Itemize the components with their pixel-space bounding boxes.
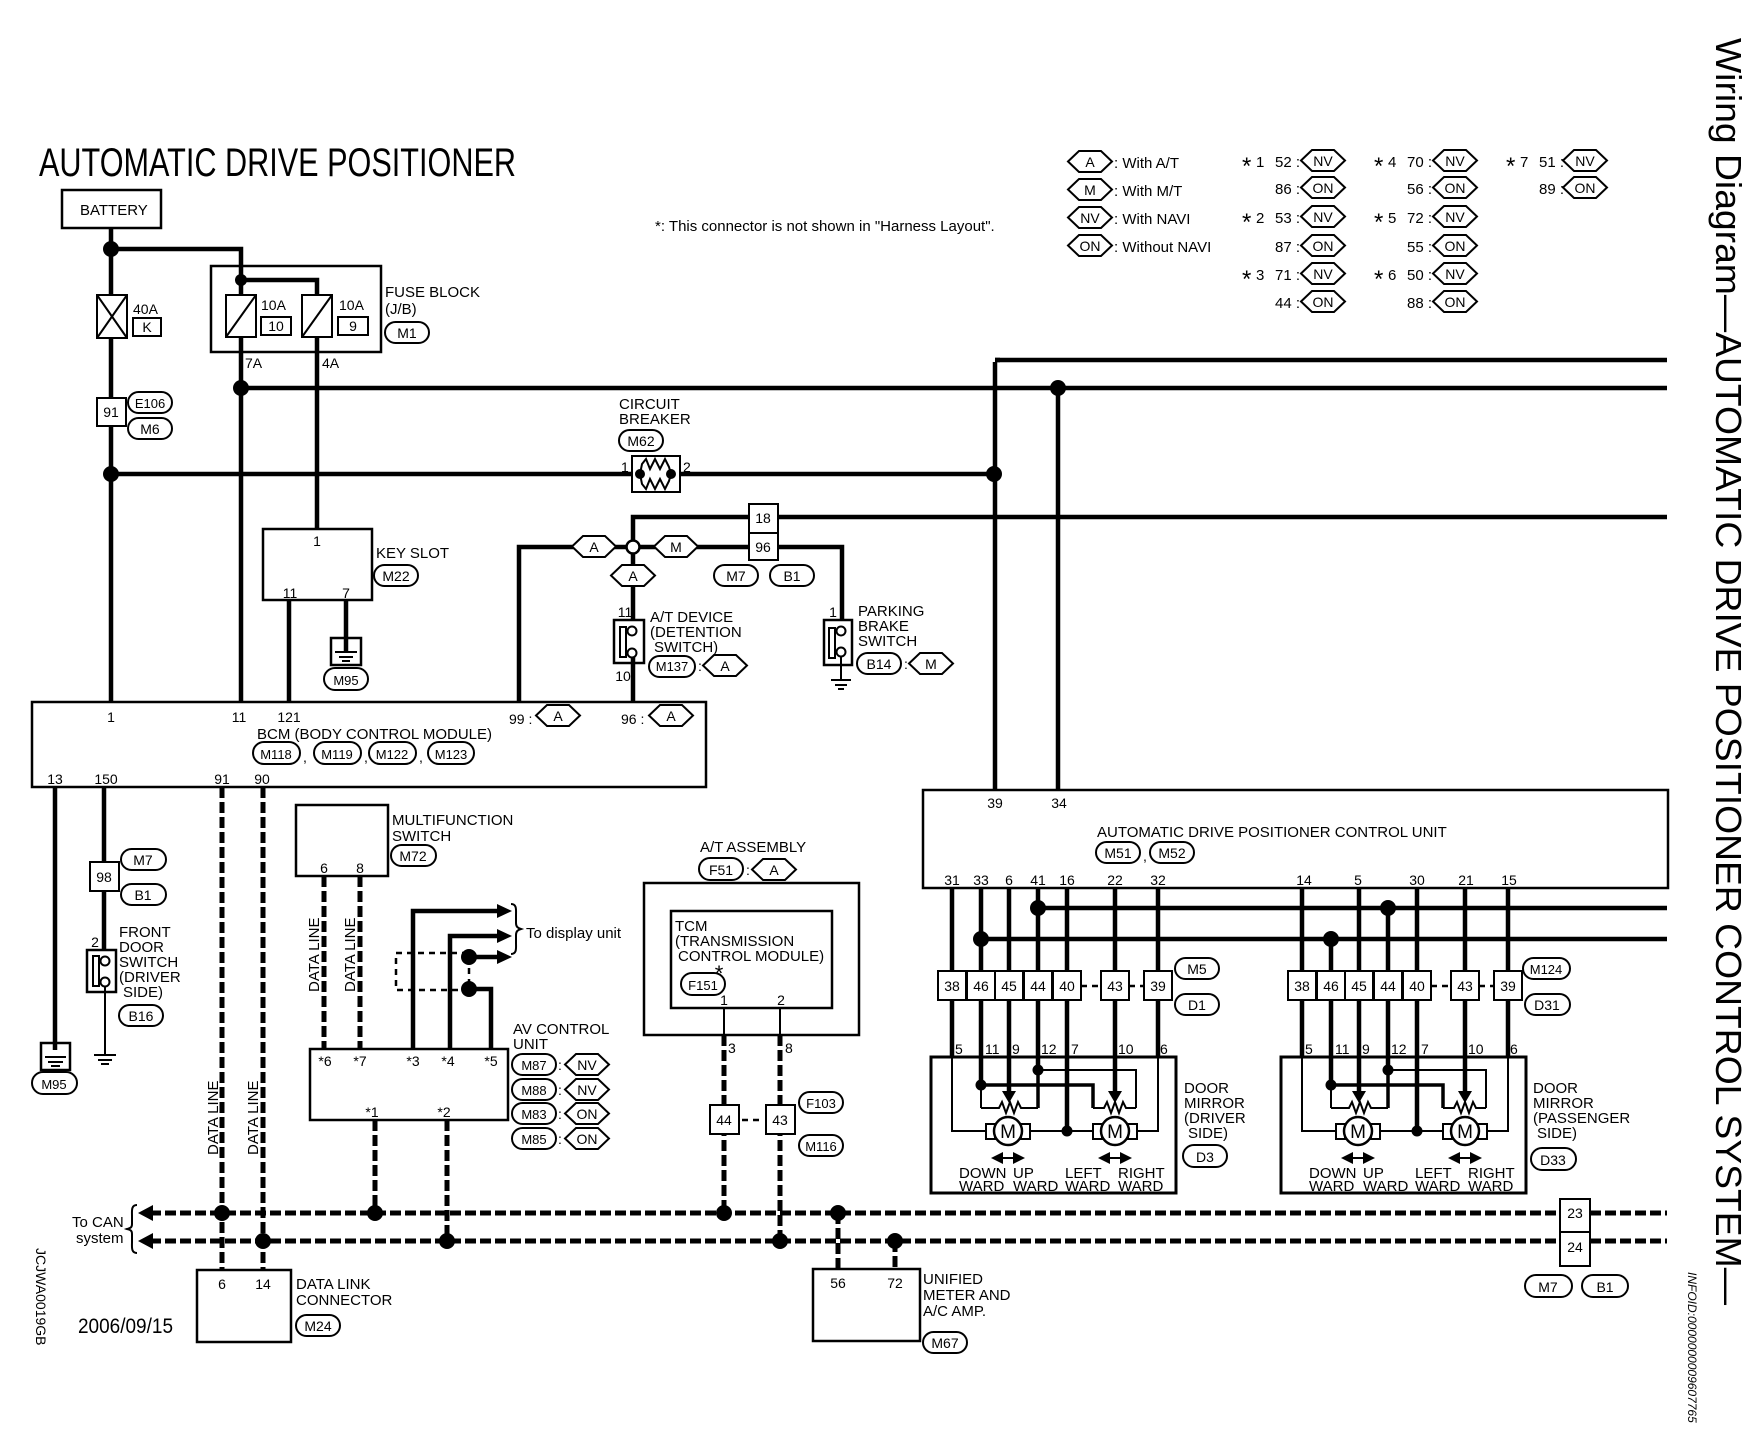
wire battery to fuse block	[111, 249, 241, 295]
svg-text:7: 7	[1071, 1041, 1079, 1057]
svg-text:M83: M83	[521, 1107, 546, 1122]
junction TCM3-CANH	[716, 1205, 732, 1221]
svg-text:1: 1	[829, 604, 837, 620]
bus wire from 7A fuse (top feed)	[241, 386, 1667, 391]
legend hexagon NV	[1068, 207, 1190, 228]
wire ADP 6	[1007, 888, 1012, 971]
svg-text:M118: M118	[260, 747, 292, 762]
wire ADP 30	[1415, 888, 1420, 971]
svg-text:ON: ON	[1313, 238, 1334, 254]
svg-text:KEY SLOT: KEY SLOT	[376, 545, 449, 562]
mirror pin labels 5/11/9/12/7/10/6	[955, 1041, 1168, 1057]
svg-text:B16: B16	[129, 1008, 154, 1024]
svg-text:M: M	[1107, 1122, 1123, 1143]
CAN bus L line	[150, 1239, 1667, 1244]
svg-text:NV: NV	[1313, 266, 1333, 282]
wire unified meter 72	[893, 1241, 898, 1269]
svg-text:NV: NV	[577, 1082, 597, 1098]
svg-text:ON: ON	[577, 1131, 598, 1147]
svg-text:*: *	[1242, 266, 1251, 293]
svg-text:51 :: 51 :	[1539, 154, 1564, 171]
svg-text:D31: D31	[1534, 997, 1560, 1013]
svg-text:M: M	[1000, 1122, 1016, 1143]
motor M2 left/right	[1093, 1117, 1137, 1145]
connector row boxes 38/46/45/44/40/43/39	[938, 971, 1172, 1000]
svg-text:M: M	[925, 656, 937, 672]
wire motor link	[1030, 1130, 1093, 1132]
arrow to display 3	[497, 950, 512, 964]
svg-text:89 :: 89 :	[1539, 181, 1564, 198]
svg-text:90: 90	[254, 771, 270, 787]
wire mirror pin 9 wiper	[1007, 1057, 1012, 1091]
wire MFS 8 data line	[358, 876, 363, 1049]
wire bus2 tap to 46 (passenger)	[1329, 939, 1334, 971]
svg-text:6: 6	[1005, 872, 1013, 888]
svg-text:44 :: 44 :	[1275, 295, 1300, 312]
svg-text:*7: *7	[353, 1053, 366, 1069]
svg-text:44: 44	[716, 1112, 732, 1128]
wire ADP pin39 riser	[993, 362, 998, 790]
svg-text:10: 10	[268, 318, 284, 334]
svg-text:DATA LINE: DATA LINE	[342, 918, 359, 992]
svg-text:3: 3	[1256, 267, 1264, 284]
svg-text:7A: 7A	[245, 355, 263, 371]
junction pot left feed	[976, 1080, 987, 1091]
wire bus1 tap to 44 (passenger)	[1386, 908, 1391, 971]
svg-text:22: 22	[1107, 872, 1123, 888]
svg-text:NV: NV	[1445, 153, 1465, 169]
ground (front door switch)	[94, 986, 116, 1064]
svg-text:9: 9	[1012, 1041, 1020, 1057]
svg-text::: :	[746, 862, 750, 878]
wire ADP 22	[1113, 888, 1118, 971]
svg-text:SWITCH): SWITCH)	[654, 639, 718, 656]
junction display option upper	[461, 949, 477, 965]
svg-text:F103: F103	[806, 1096, 836, 1111]
svg-text:BATTERY: BATTERY	[80, 202, 148, 219]
svg-text:A/T ASSEMBLY: A/T ASSEMBLY	[700, 839, 806, 856]
svg-text:6: 6	[1388, 267, 1396, 284]
svg-text:10A: 10A	[261, 297, 287, 313]
CAN bus L arrow	[138, 1233, 153, 1249]
svg-text:: With A/T: : With A/T	[1114, 155, 1179, 172]
wire option split to parking brake	[639, 547, 842, 620]
svg-text::: :	[698, 658, 702, 674]
potentiometer pot2	[1093, 1102, 1136, 1113]
arrow to display 2	[497, 929, 512, 943]
svg-text:M137: M137	[656, 659, 689, 674]
svg-text:A: A	[628, 568, 638, 584]
svg-text:WARD: WARD	[1118, 1178, 1163, 1195]
label door mirror driver side D3	[1183, 1080, 1246, 1167]
svg-text:AUTOMATIC DRIVE POSITIONER CON: AUTOMATIC DRIVE POSITIONER CONTROL UNIT	[1097, 824, 1447, 841]
junction bus2 passenger tap	[1323, 931, 1339, 947]
svg-text:1: 1	[313, 533, 321, 549]
svg-text:96 :: 96 :	[621, 711, 644, 727]
svg-text:ON: ON	[1313, 180, 1334, 196]
TCM (transmission control module) F151	[671, 911, 832, 1008]
svg-text:34: 34	[1051, 795, 1067, 811]
svg-text:A: A	[666, 708, 676, 724]
svg-text:CONTROL MODULE): CONTROL MODULE)	[678, 948, 824, 965]
svg-text:M7: M7	[1538, 1279, 1558, 1295]
svg-text:86 :: 86 :	[1275, 181, 1300, 198]
fusible link 40A K	[97, 295, 161, 338]
svg-text:B14: B14	[867, 656, 892, 672]
wires connector row to mirror	[952, 1000, 1158, 1057]
svg-text:4: 4	[1388, 154, 1396, 171]
wire A/T device pin10 to BCM 96	[631, 657, 636, 702]
svg-text:*: *	[1374, 209, 1383, 236]
fuse block J/B box M1	[211, 266, 480, 352]
svg-text:96: 96	[755, 539, 771, 555]
svg-text:M85: M85	[521, 1132, 546, 1147]
svg-text:D33: D33	[1540, 1152, 1566, 1168]
svg-text:system: system	[76, 1230, 124, 1247]
hexagon A (A/T branch left)	[572, 536, 616, 557]
svg-text:33: 33	[973, 872, 989, 888]
junction fuse branch	[235, 274, 247, 286]
svg-text:43: 43	[772, 1112, 788, 1128]
svg-text:31: 31	[944, 872, 960, 888]
wire AV *5 riser	[469, 989, 491, 1049]
svg-text:*: *	[1242, 153, 1251, 180]
svg-text:JCJWA0019GB: JCJWA0019GB	[33, 1248, 49, 1346]
svg-text:7: 7	[342, 585, 350, 601]
svg-text:M72: M72	[399, 848, 426, 864]
mirror bus 1	[1038, 906, 1667, 911]
svg-text:UNIT: UNIT	[513, 1036, 548, 1053]
parking brake switch B14	[824, 603, 953, 674]
direction arrows motor1	[991, 1152, 1025, 1164]
wire BCM 91 CAN-H data line	[220, 787, 225, 1270]
svg-text:*1: *1	[365, 1104, 378, 1120]
option split node	[627, 541, 640, 554]
svg-text:5: 5	[955, 1041, 963, 1057]
wire TCM 2 inside assembly	[779, 1008, 781, 1035]
svg-text:10A: 10A	[339, 297, 365, 313]
junction battery bus	[103, 466, 119, 482]
svg-text:11: 11	[283, 585, 298, 601]
junction display option lower	[461, 981, 477, 997]
svg-text:72 :: 72 :	[1407, 210, 1432, 227]
svg-text:A: A	[553, 708, 563, 724]
front door switch (driver side) B16	[87, 924, 181, 1026]
svg-text:11: 11	[985, 1041, 1000, 1057]
svg-text:M123: M123	[435, 747, 468, 762]
svg-text:*6: *6	[318, 1053, 331, 1069]
wire mirror pin 7	[1065, 1057, 1070, 1131]
svg-text:M7: M7	[726, 568, 746, 584]
mirror bus 2	[981, 937, 1667, 942]
key slot M22	[263, 529, 449, 601]
junction ADP41-bus1	[1030, 900, 1046, 916]
legend *6 50/88	[1374, 263, 1477, 312]
svg-text:BREAKER: BREAKER	[619, 411, 691, 428]
junction motor link	[1062, 1126, 1073, 1137]
svg-text:44: 44	[1030, 978, 1046, 994]
junction 7A bus	[233, 380, 249, 396]
svg-text:To display unit: To display unit	[526, 925, 622, 942]
svg-text:M51: M51	[1104, 845, 1131, 861]
wire pot1 left leg	[980, 1085, 982, 1108]
motor M1 up/down	[986, 1117, 1030, 1145]
wire 18 feed line	[633, 517, 1667, 541]
wire MFS 6 data line	[322, 876, 327, 1049]
wire 4A fuse output to key slot	[315, 337, 320, 529]
svg-text:FUSE BLOCK: FUSE BLOCK	[385, 284, 480, 301]
junction BCM90-CANL	[255, 1233, 271, 1249]
dashed option link box	[396, 953, 469, 990]
hexagon A (to A/T device)	[611, 565, 655, 586]
svg-text:M24: M24	[304, 1318, 331, 1334]
door mirror stack (passenger side)	[1281, 971, 1526, 1195]
wire TCM 3 to CAN-H	[722, 1035, 727, 1213]
bus wire breaker to ADP riser	[680, 472, 994, 477]
svg-text:M22: M22	[382, 568, 409, 584]
svg-text:71 :: 71 :	[1275, 267, 1300, 284]
svg-text:6: 6	[218, 1276, 226, 1292]
svg-text:38: 38	[944, 978, 960, 994]
CAN bus H arrow	[138, 1205, 153, 1221]
svg-text:,: ,	[419, 749, 423, 765]
svg-text:SWITCH: SWITCH	[858, 633, 917, 650]
wire AV *3 to display	[413, 911, 498, 1049]
svg-text:M119: M119	[321, 747, 353, 762]
svg-text:88 :: 88 :	[1407, 295, 1432, 312]
label door mirror passenger side D33	[1531, 1080, 1630, 1170]
svg-text:14: 14	[255, 1276, 271, 1292]
svg-text:,: ,	[364, 749, 368, 765]
svg-text:UNIFIED: UNIFIED	[923, 1271, 983, 1288]
junction pot right feed	[1033, 1065, 1044, 1076]
svg-text:70 :: 70 :	[1407, 154, 1432, 171]
wire pot2 right feed	[1038, 1070, 1136, 1108]
svg-text:CONNECTOR: CONNECTOR	[296, 1292, 393, 1309]
svg-text:98: 98	[96, 869, 112, 885]
svg-text:,: ,	[1143, 848, 1147, 864]
wire AV *2 to CAN-L	[445, 1120, 450, 1241]
svg-text:AUTOMATIC DRIVE POSITIONER: AUTOMATIC DRIVE POSITIONER	[39, 141, 516, 185]
svg-text:5: 5	[1388, 210, 1396, 227]
svg-text:ON: ON	[1445, 180, 1466, 196]
svg-text:WARD: WARD	[1065, 1178, 1110, 1195]
svg-text:M62: M62	[627, 433, 654, 449]
connector labels F103/M116	[799, 1092, 843, 1156]
svg-text:87 :: 87 :	[1275, 239, 1300, 256]
svg-text:ON: ON	[1313, 294, 1334, 310]
svg-text:K: K	[142, 319, 152, 335]
wire BCM 90 CAN-L data line	[261, 787, 266, 1270]
wire ADP 32	[1156, 888, 1161, 971]
connector 43 box	[766, 1105, 795, 1134]
wire fuse block internal branch	[241, 280, 317, 295]
svg-text:2: 2	[91, 934, 99, 950]
svg-text:M124: M124	[1530, 962, 1563, 977]
door mirror box	[931, 1057, 1176, 1193]
wire ADP 15	[1506, 888, 1511, 971]
junction UM56-CANH	[830, 1205, 846, 1221]
junction BCM91-CANH	[214, 1205, 230, 1221]
svg-text:6: 6	[1160, 1041, 1168, 1057]
legend *1 52/86	[1242, 150, 1345, 198]
svg-text:10: 10	[1118, 1041, 1134, 1057]
svg-text:91: 91	[103, 404, 119, 420]
svg-text:To CAN: To CAN	[72, 1214, 124, 1231]
connector 91 E106/M6 on battery wire	[97, 392, 172, 439]
bus wire top feed to right edge	[995, 358, 1667, 363]
svg-text:2: 2	[777, 992, 785, 1008]
svg-text:6: 6	[320, 860, 328, 876]
svg-text:M87: M87	[521, 1058, 546, 1073]
svg-text:32: 32	[1150, 872, 1166, 888]
arrow pot2 wiper	[1108, 1091, 1122, 1103]
wire ADP 14	[1300, 888, 1305, 971]
legend hexagon A	[1068, 151, 1179, 172]
svg-text:8: 8	[356, 860, 364, 876]
legend *3 71/44	[1242, 263, 1345, 312]
wire ADP 16	[1065, 888, 1070, 971]
arrow to display 1	[497, 904, 512, 918]
svg-text:: Without NAVI: : Without NAVI	[1114, 239, 1211, 256]
wire AV *4 to display	[450, 936, 498, 1049]
svg-text:4A: 4A	[322, 355, 340, 371]
svg-text:D3: D3	[1196, 1149, 1214, 1165]
svg-text:52 :: 52 :	[1275, 154, 1300, 171]
svg-text:39: 39	[987, 795, 1003, 811]
svg-text:M95: M95	[333, 673, 358, 688]
junction TCM8-CANL	[772, 1233, 788, 1249]
wire key slot pin 11 to BCM 121	[287, 600, 292, 702]
svg-text:NV: NV	[1445, 266, 1465, 282]
svg-text:11: 11	[618, 604, 633, 620]
unified meter and A/C amp M67	[813, 1269, 1011, 1353]
svg-text:M67: M67	[931, 1335, 958, 1351]
hexagon M (M/T branch)	[654, 536, 698, 557]
svg-text:MULTIFUNCTION: MULTIFUNCTION	[392, 812, 513, 829]
svg-text:M116: M116	[805, 1139, 837, 1154]
svg-text:: With NAVI: : With NAVI	[1114, 211, 1190, 228]
svg-text:M7: M7	[133, 852, 153, 868]
svg-text:NV: NV	[1313, 209, 1333, 225]
AV control unit box	[310, 1049, 508, 1120]
junction battery branch	[103, 241, 119, 257]
connector labels M5/D1	[1175, 958, 1219, 1015]
svg-text:30: 30	[1409, 872, 1425, 888]
wire ADP 31	[950, 888, 955, 971]
wire TCM 8 to CAN-L	[778, 1035, 783, 1241]
A/T assembly F51	[644, 839, 859, 1035]
battery B1	[62, 190, 161, 228]
svg-text:M88: M88	[521, 1083, 546, 1098]
legend *4 70/56	[1374, 150, 1477, 198]
svg-text:14: 14	[1296, 872, 1312, 888]
legend hexagon ON	[1068, 235, 1211, 256]
svg-text:10: 10	[615, 668, 631, 684]
svg-text:2006/09/15: 2006/09/15	[78, 1315, 173, 1338]
junction bus to ADP riser	[986, 466, 1002, 482]
svg-text:NV: NV	[1080, 210, 1100, 226]
svg-text:12: 12	[1041, 1041, 1057, 1057]
wire option dot to display	[469, 955, 498, 960]
wire option split to A/T device	[631, 553, 636, 620]
svg-text:M5: M5	[1187, 961, 1207, 977]
svg-text:E106: E106	[135, 396, 165, 411]
junction AV1-CANH	[367, 1205, 383, 1221]
svg-text:5: 5	[1354, 872, 1362, 888]
svg-text:13: 13	[47, 771, 63, 787]
svg-text:46: 46	[973, 978, 989, 994]
svg-text:A/C AMP.: A/C AMP.	[923, 1303, 986, 1320]
svg-text:3: 3	[728, 1040, 736, 1056]
svg-text:11: 11	[232, 709, 247, 725]
wire BCM 150 to front door switch	[102, 787, 107, 950]
junction bus1 passenger tap	[1380, 900, 1396, 916]
svg-text:ON: ON	[1575, 180, 1596, 196]
svg-text:DATA LINK: DATA LINK	[296, 1276, 370, 1293]
multifunction switch M72	[296, 805, 513, 876]
dashed link 44-43	[742, 1119, 763, 1122]
junction ADP33-bus2	[973, 931, 989, 947]
svg-text:*3: *3	[406, 1053, 419, 1069]
arrow pot1 wiper	[1002, 1091, 1016, 1103]
svg-text:DATA LINE: DATA LINE	[245, 1081, 262, 1155]
svg-text:M122: M122	[376, 747, 409, 762]
BCM (body control module) box	[32, 702, 706, 787]
svg-text:ON: ON	[1445, 294, 1466, 310]
svg-text:121: 121	[277, 709, 301, 725]
svg-text::: :	[904, 656, 908, 672]
svg-text:99 :: 99 :	[509, 711, 532, 727]
svg-text:M52: M52	[1158, 845, 1185, 861]
svg-text:*2: *2	[437, 1104, 450, 1120]
legend hexagon M	[1068, 179, 1182, 200]
wire 7A fuse output to BCM pin 11	[239, 337, 244, 702]
wire TCM 1 inside assembly	[723, 1008, 725, 1035]
svg-text:SIDE): SIDE)	[1188, 1125, 1228, 1142]
svg-text:A: A	[589, 539, 599, 555]
svg-text:45: 45	[1001, 978, 1017, 994]
svg-text:*: This connector is not shown: *: This connector is not shown in "Harne…	[655, 218, 995, 235]
svg-text::: :	[558, 1082, 562, 1098]
svg-text:B1: B1	[1596, 1279, 1613, 1295]
wire pot2 left feed	[981, 1085, 1093, 1108]
svg-text:*5: *5	[484, 1053, 497, 1069]
wire ADP 21	[1463, 888, 1468, 971]
wire mirror pin 12	[1036, 1057, 1041, 1070]
svg-text:: With M/T: : With M/T	[1114, 183, 1182, 200]
svg-text:2: 2	[683, 459, 691, 475]
wire key slot pin 7 to ground	[344, 600, 349, 652]
svg-text:M1: M1	[397, 325, 417, 341]
svg-text:WARD: WARD	[959, 1178, 1004, 1195]
svg-text:*: *	[1374, 266, 1383, 293]
svg-text:DATA LINE: DATA LINE	[205, 1081, 222, 1155]
junction ADP pin34 tap	[1050, 380, 1066, 396]
wire ADP 5	[1357, 888, 1362, 971]
svg-text:23: 23	[1567, 1205, 1583, 1221]
svg-text:91: 91	[214, 771, 230, 787]
svg-text::: :	[558, 1131, 562, 1147]
fuse 10A no.9	[302, 295, 368, 337]
svg-text:9: 9	[349, 318, 357, 334]
wire mirror pin 6	[1137, 1057, 1158, 1131]
svg-text:M95: M95	[41, 1077, 66, 1092]
svg-text:A: A	[769, 862, 779, 878]
A/T device (detention switch) M137	[614, 604, 747, 684]
wire BCM 13 to ground	[53, 787, 58, 1050]
connector boxes 18/96 M7-B1	[714, 504, 814, 586]
